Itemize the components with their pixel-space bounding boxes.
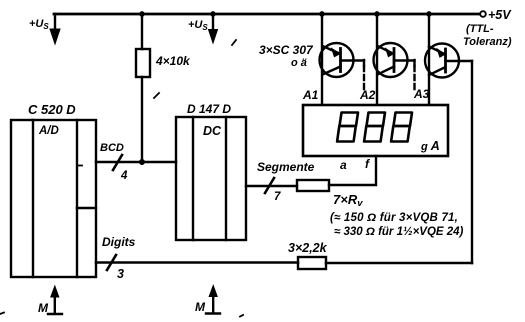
svg-text:(≈ 150 Ω für 3×VQB 71,: (≈ 150 Ω für 3×VQB 71,: [330, 212, 458, 224]
svg-text:7: 7: [274, 191, 281, 203]
node junction dot rail/resistor: [139, 11, 144, 16]
wire resistor to BCD bus: [141, 77, 143, 162]
IC U2 D147D decoder box: [176, 117, 246, 240]
node +5V terminal: [480, 11, 486, 17]
bus slash Segmente 7: [265, 178, 274, 193]
wire resistor Rv to display segment pin: [329, 156, 376, 185]
ground M symbol left: [48, 286, 62, 314]
svg-text:BCD: BCD: [100, 142, 124, 154]
svg-text:M: M: [38, 301, 49, 315]
svg-text:4: 4: [120, 170, 128, 182]
wire dashed base Q1: [363, 60, 365, 66]
svg-text:a: a: [340, 158, 347, 172]
svg-text:A2: A2: [359, 88, 376, 102]
svg-text:+US: +US: [188, 19, 208, 32]
stray tick marks: [0, 40, 243, 317]
svg-text:+5V: +5V: [488, 8, 512, 22]
display digit 8 first: [337, 113, 358, 142]
wire rail to resistor 4x10k: [141, 14, 143, 49]
svg-text:DC: DC: [203, 124, 222, 138]
ground M symbol right: [206, 286, 220, 314]
svg-text:M: M: [195, 300, 206, 314]
svg-text:Toleranz): Toleranz): [463, 36, 512, 48]
display LED 7-segment box: [303, 105, 448, 156]
svg-text:3×2,2k: 3×2,2k: [288, 241, 328, 255]
resistor 4x10k: [136, 49, 150, 77]
display digit 8 second: [364, 113, 385, 142]
svg-text:7×Rv: 7×Rv: [333, 192, 363, 209]
transistor Q3 SC307: [425, 14, 472, 103]
resistor 3x2.2k: [298, 257, 326, 269]
svg-text:Segmente: Segmente: [257, 160, 315, 174]
IC U1 C520D A/D converter box: [11, 120, 96, 277]
bus slash BCD 4: [113, 155, 122, 170]
svg-text:≈ 330 Ω für 1½×VQE 24): ≈ 330 Ω für 1½×VQE 24): [334, 226, 464, 238]
node junction dot rail Q1: [319, 11, 324, 16]
wire Segmente bus D147D to resistor: [246, 185, 297, 187]
svg-text:4×10k: 4×10k: [155, 54, 191, 68]
svg-text:+US: +US: [29, 18, 49, 31]
svg-text:A/D: A/D: [38, 125, 59, 137]
wire resistor 2.2k to right riser: [326, 262, 472, 265]
svg-text:A3: A3: [413, 87, 430, 101]
svg-text:3: 3: [117, 267, 124, 281]
svg-text:f: f: [365, 157, 370, 171]
bus slash Digits 3: [107, 255, 116, 270]
wire dashed base Q2: [413, 60, 415, 66]
wire top +5V rail: [54, 13, 480, 16]
node junction dot BCD bus: [139, 159, 145, 165]
display digit 8 third: [391, 113, 412, 142]
transistor Q2 SC307: [374, 14, 415, 103]
power +Us arrow left: [50, 14, 60, 44]
svg-text:Digits: Digits: [102, 235, 136, 249]
transistor Q1 SC307: [320, 14, 365, 103]
wire Digits bus C520D to resistor: [96, 261, 298, 264]
node junction dot rail Q3: [426, 11, 431, 16]
power +Us arrow middle: [209, 11, 218, 43]
svg-text:C 520 D: C 520 D: [28, 102, 76, 117]
wire base Q3 down right side to digits bus: [471, 61, 473, 263]
svg-text:D 147 D: D 147 D: [187, 102, 231, 116]
resistor 7xRv: [297, 180, 329, 191]
svg-text:A1: A1: [302, 88, 319, 102]
svg-text:g A: g A: [420, 139, 440, 153]
wire BCD bus C520D to D147D: [96, 161, 176, 164]
svg-text:o ä: o ä: [291, 57, 307, 69]
node junction dot rail Q2: [374, 11, 379, 16]
svg-text:(TTL-: (TTL-: [466, 23, 494, 35]
svg-text:3×SC 307: 3×SC 307: [259, 43, 314, 57]
